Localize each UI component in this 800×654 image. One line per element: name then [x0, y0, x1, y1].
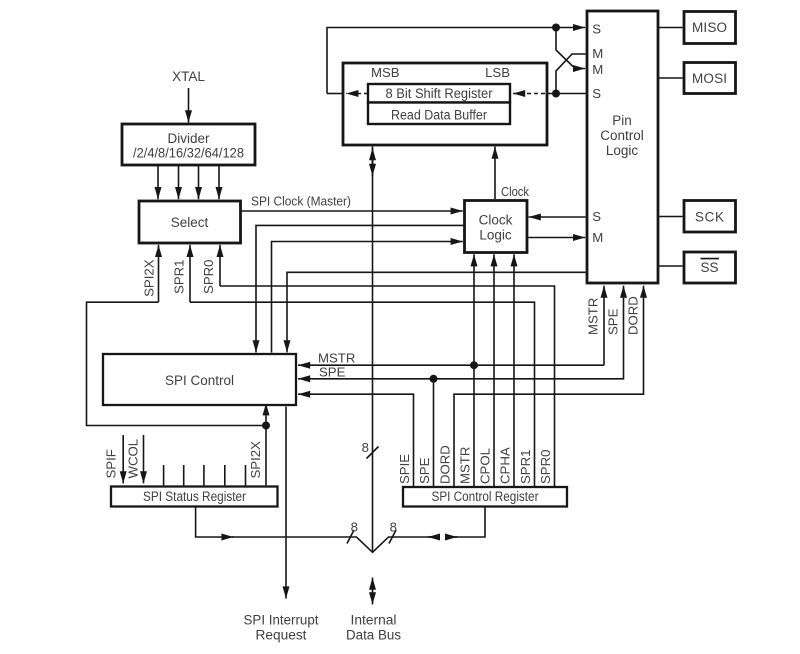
svg-text:DORD: DORD	[626, 296, 641, 335]
svg-text:M: M	[592, 46, 603, 61]
svg-text:MISO: MISO	[692, 20, 727, 35]
svg-text:SPIF: SPIF	[104, 449, 119, 478]
svg-text:SPE: SPE	[319, 365, 346, 380]
svg-text:8 Bit Shift Register: 8 Bit Shift Register	[386, 86, 493, 101]
svg-text:MSTR: MSTR	[458, 447, 473, 484]
svg-text:Pin: Pin	[612, 113, 632, 128]
svg-text:XTAL: XTAL	[172, 69, 205, 84]
svg-text:/2/4/8/16/32/64/128: /2/4/8/16/32/64/128	[133, 146, 244, 161]
svg-text:SPR0: SPR0	[538, 450, 553, 484]
svg-text:Internal: Internal	[351, 612, 397, 627]
svg-text:M: M	[592, 230, 603, 245]
svg-text:Clock: Clock	[479, 212, 513, 227]
svg-text:DORD: DORD	[438, 445, 453, 484]
svg-text:Data Bus: Data Bus	[346, 628, 401, 643]
svg-text:Clock: Clock	[501, 184, 529, 199]
svg-text:SPI Clock (Master): SPI Clock (Master)	[251, 194, 351, 209]
svg-text:SPI2X: SPI2X	[248, 441, 263, 479]
svg-text:MSTR: MSTR	[318, 351, 355, 366]
svg-text:SPI Status Register: SPI Status Register	[143, 489, 246, 504]
svg-text:8: 8	[390, 520, 397, 535]
svg-text:SPE: SPE	[417, 457, 432, 484]
svg-text:SPR1: SPR1	[171, 260, 186, 294]
svg-text:Select: Select	[171, 215, 209, 230]
svg-text:WCOL: WCOL	[125, 439, 140, 479]
svg-text:SS: SS	[700, 260, 718, 275]
svg-text:SPR1: SPR1	[518, 450, 533, 484]
svg-text:Control: Control	[600, 128, 644, 143]
svg-text:Logic: Logic	[606, 143, 639, 158]
svg-text:SPI Control: SPI Control	[165, 373, 234, 388]
svg-text:CPOL: CPOL	[478, 448, 493, 484]
svg-text:SPI Control Register: SPI Control Register	[432, 489, 539, 504]
svg-text:M: M	[592, 62, 603, 77]
svg-text:8: 8	[362, 440, 369, 455]
svg-text:LSB: LSB	[485, 65, 510, 80]
svg-text:SPI2X: SPI2X	[141, 259, 156, 297]
svg-text:8: 8	[351, 520, 358, 535]
svg-text:CPHA: CPHA	[498, 447, 513, 484]
svg-text:MSB: MSB	[371, 65, 400, 80]
svg-text:SPR0: SPR0	[201, 260, 216, 294]
svg-text:Request: Request	[256, 628, 307, 643]
svg-text:S: S	[592, 22, 601, 37]
svg-text:MSTR: MSTR	[586, 298, 601, 335]
svg-text:SCK: SCK	[695, 209, 724, 224]
svg-text:S: S	[592, 86, 601, 101]
svg-text:Read Data Buffer: Read Data Buffer	[391, 108, 487, 123]
svg-text:S: S	[592, 209, 601, 224]
svg-text:MOSI: MOSI	[692, 71, 727, 86]
svg-text:Logic: Logic	[479, 227, 512, 242]
svg-text:SPE: SPE	[606, 308, 621, 335]
svg-text:SPI Interrupt: SPI Interrupt	[244, 612, 319, 627]
svg-text:SPIE: SPIE	[397, 454, 412, 484]
svg-text:Divider: Divider	[167, 131, 210, 146]
